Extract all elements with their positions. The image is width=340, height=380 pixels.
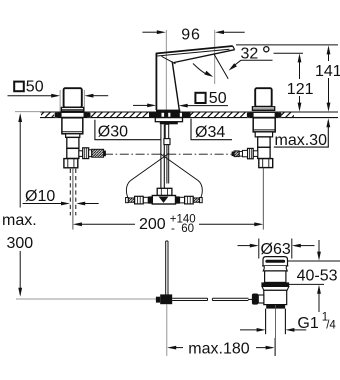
dimension 121 bbox=[287, 53, 314, 111]
spout base plinth bbox=[149, 110, 191, 125]
left valve body below counter bbox=[62, 118, 83, 159]
pop-up waste drain bbox=[252, 257, 289, 356]
right valve handle bbox=[255, 88, 272, 107]
left valve escutcheon bbox=[55, 112, 91, 117]
tee right hose chain bbox=[176, 196, 203, 204]
label diam-34 bbox=[191, 119, 232, 141]
right valve centre line bbox=[262, 168, 264, 230]
tee outlet triangle bbox=[159, 197, 169, 203]
svg-text:Ø30: Ø30 bbox=[98, 124, 128, 141]
dimension diam-10 bbox=[23, 188, 99, 206]
countertop hatching segments bbox=[41, 112, 294, 117]
countertop left thin extension line bbox=[15, 111, 41, 113]
right valve body below counter bbox=[253, 118, 275, 159]
dimension diam-63 bbox=[238, 239, 315, 259]
hose loop left curve bbox=[126, 154, 168, 198]
dimension 141 bbox=[236, 45, 340, 112]
horizontal pop-up rod segment 2 bbox=[212, 298, 248, 300]
svg-text:/4: /4 bbox=[326, 319, 336, 331]
spout shank tubes bbox=[161, 124, 170, 189]
label diam-30 bbox=[95, 120, 161, 141]
left valve dashed tail pipes bbox=[70, 169, 76, 216]
hose loop right curve bbox=[160, 154, 202, 198]
svg-text:Ø10: Ø10 bbox=[25, 188, 55, 205]
horizontal pop-up rod segment 1 bbox=[172, 298, 207, 300]
label square-50 centre (spout base size) bbox=[133, 90, 228, 108]
left valve handle flange bbox=[61, 107, 83, 111]
right valve handle flange bbox=[252, 107, 274, 111]
svg-text:Ø63: Ø63 bbox=[261, 241, 291, 258]
svg-text:max.: max. bbox=[2, 212, 37, 229]
supply dash-dot line bbox=[104, 153, 232, 155]
dimension max.180 bbox=[167, 338, 274, 358]
svg-text:G1: G1 bbox=[297, 315, 318, 332]
left valve side outlet with hose bbox=[79, 148, 92, 159]
dimension 200 +140 -60 bbox=[73, 214, 263, 235]
svg-text:50: 50 bbox=[209, 90, 227, 107]
right valve escutcheon bbox=[247, 112, 282, 117]
tee left hose chain bbox=[126, 196, 153, 204]
left valve bottom nut bbox=[64, 159, 78, 168]
left valve extension lines bbox=[59, 90, 61, 112]
dimension G1 1/4 bbox=[240, 312, 336, 332]
svg-text:max.30: max.30 bbox=[275, 132, 328, 149]
left valve handle bbox=[64, 88, 82, 107]
label max.30 bbox=[274, 118, 330, 149]
pop-up rod link to drain bbox=[248, 298, 252, 300]
dimension max.300 bbox=[2, 113, 37, 297]
spout body bbox=[156, 46, 235, 110]
svg-text:40-53: 40-53 bbox=[297, 267, 338, 284]
left valve centre line bbox=[72, 169, 74, 230]
svg-text:max.180: max.180 bbox=[188, 341, 249, 358]
svg-text:121: 121 bbox=[287, 81, 314, 98]
dimension 40-53 bbox=[288, 240, 340, 312]
basin bottom reference line bbox=[16, 298, 160, 300]
svg-text:50: 50 bbox=[26, 78, 44, 95]
tee fitting under spout bbox=[152, 188, 175, 204]
svg-text:200: 200 bbox=[139, 216, 166, 233]
svg-text:32: 32 bbox=[241, 46, 259, 63]
right valve side outlet with hose bbox=[239, 148, 258, 158]
right valve bottom nut bbox=[259, 159, 273, 168]
angle 32 deg annotation bbox=[193, 55, 273, 79]
dimension 96 bbox=[142, 27, 244, 112]
pop-up rod vertical bbox=[166, 241, 168, 295]
svg-text:- 60: - 60 bbox=[171, 223, 194, 235]
countertop slab top line bbox=[40, 112, 338, 118]
rod joint block bbox=[156, 297, 160, 303]
svg-text:300: 300 bbox=[7, 235, 34, 252]
svg-text:Ø34: Ø34 bbox=[195, 124, 225, 141]
svg-text:96: 96 bbox=[181, 27, 200, 44]
svg-text:141: 141 bbox=[315, 63, 340, 80]
label square-50 top-left (handle size) bbox=[8, 78, 109, 97]
joint lower centre line bbox=[166, 304, 168, 356]
